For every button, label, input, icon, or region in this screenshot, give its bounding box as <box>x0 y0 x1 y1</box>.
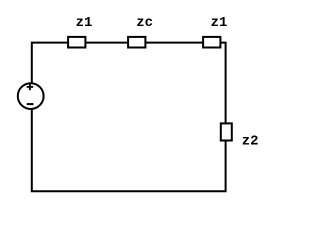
svg-text:z1: z1 <box>76 15 93 31</box>
svg-text:z1: z1 <box>211 15 228 31</box>
svg-text:z2: z2 <box>242 134 259 150</box>
svg-text:zc: zc <box>136 15 153 31</box>
